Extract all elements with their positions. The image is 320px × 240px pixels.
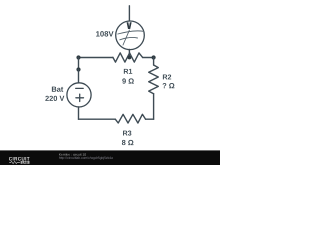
voltmeter V1 [116,21,145,50]
wire voltmeter bottom lead [128,50,130,58]
label 108V voltmeter reading [96,31,113,36]
resistor R3 [115,114,145,123]
resistor R2 [149,65,159,94]
node junction left mid [76,67,80,71]
node junction top-left [76,55,80,59]
label R2 ?ohm [163,74,175,88]
wire right vertical lower [153,94,155,120]
label Bat 220 V [45,87,64,101]
wire right vertical upper [153,58,155,66]
resistor R1 [113,53,143,62]
wire top-left horizontal [79,57,113,59]
wire bottom-right horizontal [146,118,154,120]
wire left vertical upper [78,58,80,70]
footer caption text [59,153,113,159]
footer watermark bar [0,150,220,165]
label R3 8ohm [122,131,134,146]
wire voltmeter top lead [128,6,130,20]
label R1 9ohm [122,69,134,84]
battery BAT1 220V source [67,83,91,107]
footer CircuitLab logo [9,157,30,164]
node junction voltmeter tap [127,56,131,60]
wire left vertical to battery [78,70,80,83]
wire R1 to right node [143,57,154,59]
wire battery bottom lead [78,107,80,119]
wire bottom-left horizontal [79,118,116,120]
node junction top-right [152,55,156,59]
